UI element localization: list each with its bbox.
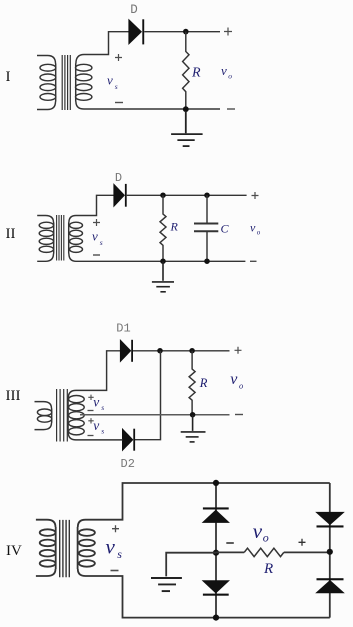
- svg-text:R: R: [199, 376, 208, 390]
- wire secondary bottom to D2 anode: [76, 439, 123, 441]
- svg-text:s: s: [115, 82, 118, 91]
- diode D5 (right upper, points down): [317, 512, 344, 527]
- wire secondary bottom to bridge bottom rail: [86, 576, 330, 618]
- transformer T4 primary winding: [36, 520, 56, 576]
- - polarity of vs: [93, 254, 100, 256]
- svg-text:D: D: [130, 3, 138, 17]
- ground: [181, 415, 206, 442]
- - output terminal: [250, 260, 257, 262]
- svg-text:v: v: [230, 371, 238, 388]
- label vo: [253, 519, 269, 545]
- wire bottom rail: [76, 260, 245, 262]
- node bridge right middle: [327, 549, 333, 555]
- diode D: [129, 19, 144, 44]
- transformer T2 primary winding: [37, 216, 54, 262]
- - polarity lower vs: [88, 435, 94, 437]
- - polarity of vs: [111, 570, 119, 572]
- label vs: [106, 534, 123, 561]
- wire diode cathode to output +: [144, 31, 220, 33]
- - polarity of vs: [115, 102, 123, 104]
- transformer T2 core: [57, 215, 64, 261]
- svg-text:C: C: [221, 222, 230, 236]
- + polarity of vo: [299, 539, 306, 546]
- svg-text:v: v: [253, 519, 263, 543]
- svg-text:D1: D1: [116, 322, 130, 336]
- + polarity of vs: [93, 219, 100, 226]
- svg-text:o: o: [263, 530, 269, 544]
- resistor R: [189, 351, 195, 415]
- svg-text:v: v: [93, 418, 99, 433]
- label lower vs: [93, 418, 104, 436]
- diode D1: [120, 340, 133, 362]
- ground: [151, 578, 182, 591]
- bridge left branch wire: [215, 483, 217, 618]
- transformer T2 secondary winding: [69, 216, 83, 262]
- svg-text:I: I: [6, 69, 11, 85]
- resistor R (horizontal): [244, 548, 284, 556]
- svg-text:s: s: [101, 426, 104, 435]
- wire left node to ground: [166, 553, 216, 577]
- label vo: [230, 371, 243, 391]
- node D2 riser top: [157, 348, 163, 354]
- diode D4 (left lower, points down): [203, 581, 229, 596]
- svg-text:v: v: [107, 73, 113, 88]
- svg-text:v: v: [92, 229, 98, 244]
- transformer T4 secondary winding: [78, 520, 95, 576]
- svg-text:v: v: [250, 221, 256, 235]
- transformer T1 primary winding: [37, 56, 56, 110]
- node R bottom: [160, 258, 166, 264]
- - polarity of vo: [226, 542, 234, 544]
- wire secondary top to diode anode: [76, 195, 114, 215]
- wire left node to resistor: [216, 551, 244, 553]
- svg-text:D: D: [115, 171, 122, 185]
- - polarity upper vs: [88, 410, 94, 412]
- wire resistor to right node: [284, 551, 330, 553]
- svg-text:III: III: [6, 388, 21, 404]
- + polarity upper vs: [88, 395, 93, 400]
- wire D2 cathode riser: [134, 351, 161, 440]
- node R top: [160, 192, 166, 198]
- node C top: [204, 192, 210, 198]
- svg-text:D2: D2: [121, 457, 135, 471]
- wire D1 cathode to output +: [133, 350, 230, 352]
- node bridge left middle: [213, 550, 219, 556]
- svg-text:v: v: [93, 394, 99, 409]
- node bridge bottom: [213, 615, 219, 621]
- resistor R: [183, 32, 189, 110]
- label vo: [221, 63, 232, 81]
- svg-text:v: v: [221, 63, 227, 78]
- svg-text:o: o: [228, 72, 232, 81]
- transformer T3 core: [57, 389, 68, 442]
- label vs: [92, 229, 103, 248]
- center-tap rail to - output: [80, 414, 230, 416]
- diode D2: [123, 429, 136, 451]
- + polarity of vs: [115, 54, 122, 61]
- svg-text:o: o: [257, 229, 261, 237]
- diode D6 (right lower, points up): [317, 578, 344, 593]
- - output terminal: [227, 108, 235, 110]
- capacitor C: [194, 195, 218, 261]
- svg-text:s: s: [117, 547, 122, 561]
- node bottom junction: [183, 106, 189, 112]
- svg-text:IV: IV: [6, 543, 22, 559]
- + output terminal: [252, 192, 259, 199]
- transformer T3 secondary winding (center-tapped): [68, 390, 84, 440]
- svg-text:R: R: [170, 220, 179, 234]
- svg-text:II: II: [6, 226, 16, 242]
- wire diode cathode to output +: [127, 194, 247, 196]
- svg-text:R: R: [263, 561, 273, 577]
- wire secondary top to diode D1 anode: [76, 351, 120, 391]
- bridge right branch wire: [329, 483, 331, 618]
- diode D: [114, 184, 127, 207]
- wire secondary top to bridge top rail: [86, 483, 330, 520]
- label upper vs: [93, 394, 104, 412]
- label vo: [250, 221, 261, 237]
- transformer T1 core: [62, 55, 70, 110]
- resistor R: [160, 195, 166, 261]
- svg-text:s: s: [100, 238, 103, 247]
- wire secondary top to diode anode: [84, 32, 129, 55]
- - output terminal: [235, 414, 243, 416]
- transformer T1 secondary winding: [76, 55, 92, 110]
- ground: [171, 111, 203, 146]
- node R bottom: [190, 412, 196, 418]
- + polarity lower vs: [88, 418, 93, 423]
- diode D3 (left upper, points up): [203, 507, 229, 522]
- label vs: [107, 73, 118, 92]
- node C bottom: [204, 258, 210, 264]
- + output terminal: [224, 28, 232, 36]
- node top junction: [183, 29, 189, 35]
- ground: [152, 261, 174, 292]
- wire bottom rail: [84, 108, 220, 110]
- node R top: [189, 348, 195, 354]
- svg-text:R: R: [191, 66, 201, 81]
- svg-text:o: o: [239, 381, 243, 391]
- + output terminal: [235, 347, 242, 354]
- transformer T3 primary winding: [35, 402, 52, 430]
- transformer T4 core: [60, 520, 70, 577]
- + polarity of vs: [112, 525, 119, 532]
- svg-text:v: v: [106, 534, 116, 558]
- svg-text:s: s: [101, 403, 104, 412]
- node bridge top: [213, 480, 219, 486]
